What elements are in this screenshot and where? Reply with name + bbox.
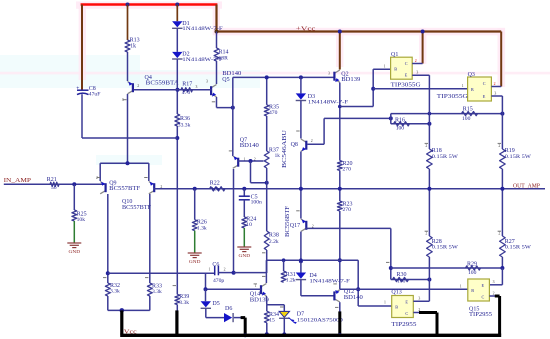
svg-text:GND: GND (189, 259, 201, 264)
svg-text:R17: R17 (182, 82, 192, 88)
svg-text:BD140: BD140 (240, 143, 259, 149)
svg-text:R29: R29 (467, 261, 477, 267)
svg-text:R30: R30 (397, 272, 407, 278)
svg-text:56: 56 (51, 185, 57, 191)
svg-text:BD139: BD139 (341, 77, 360, 83)
svg-text:E: E (405, 72, 408, 77)
svg-text:33.3k: 33.3k (178, 122, 191, 128)
svg-text:BC559BTA: BC559BTA (146, 81, 180, 87)
svg-text:B: B (471, 288, 474, 293)
svg-text:IN_AMP: IN_AMP (4, 177, 32, 184)
svg-text:TIP2955: TIP2955 (391, 322, 416, 328)
svg-text:270: 270 (343, 207, 352, 213)
svg-text:GND: GND (239, 253, 251, 258)
svg-text:3: 3 (416, 71, 418, 75)
svg-text:B: B (394, 67, 397, 72)
svg-text:3.3k: 3.3k (110, 289, 120, 295)
svg-text:2: 2 (425, 144, 427, 148)
svg-text:BC556BTF: BC556BTF (285, 205, 291, 237)
svg-text:470: 470 (269, 110, 278, 116)
svg-text:2: 2 (494, 82, 496, 86)
svg-text:2: 2 (498, 144, 500, 148)
svg-text:470: 470 (182, 90, 191, 96)
svg-text:100: 100 (397, 279, 406, 285)
svg-text:1: 1 (209, 267, 211, 271)
svg-text:R36: R36 (180, 116, 190, 122)
svg-text:2: 2 (498, 232, 500, 236)
svg-text:1N4148W-7-F: 1N4148W-7-F (308, 100, 349, 106)
svg-text:2: 2 (224, 267, 226, 271)
svg-text:Q1: Q1 (391, 52, 398, 58)
svg-text:3.3k: 3.3k (179, 300, 189, 306)
svg-text:Q3: Q3 (468, 72, 475, 78)
svg-text:3: 3 (418, 297, 420, 301)
svg-text:TIP3055G: TIP3055G (391, 83, 422, 89)
svg-text:R15: R15 (463, 106, 473, 112)
svg-text:2: 2 (311, 139, 313, 143)
svg-text:Q8: Q8 (291, 142, 298, 148)
svg-text:3: 3 (494, 91, 496, 95)
svg-text:3: 3 (328, 71, 330, 75)
svg-text:0.15R 5W: 0.15R 5W (432, 154, 459, 160)
svg-text:100n: 100n (251, 200, 262, 206)
svg-text:2: 2 (415, 59, 417, 63)
svg-text:C: C (483, 81, 486, 86)
svg-text:D5: D5 (212, 301, 219, 307)
svg-text:BC557BTF: BC557BTF (122, 205, 152, 211)
svg-text:0.15R 5W: 0.15R 5W (505, 244, 532, 250)
svg-text:10k: 10k (211, 186, 220, 192)
svg-text:1: 1 (462, 84, 464, 88)
svg-text:15: 15 (269, 317, 275, 323)
svg-text:Q5: Q5 (222, 77, 229, 83)
svg-text:B: B (395, 305, 398, 310)
svg-text:100: 100 (396, 125, 405, 131)
svg-text:R21: R21 (47, 177, 57, 183)
svg-text:D6: D6 (225, 306, 232, 312)
svg-text:E: E (482, 283, 485, 288)
svg-text:100: 100 (468, 270, 477, 276)
svg-text:150120AS75000: 150120AS75000 (297, 317, 343, 323)
svg-text:BC546ABU: BC546ABU (282, 129, 288, 168)
svg-text:470p: 470p (213, 278, 224, 284)
svg-text:1k: 1k (130, 43, 136, 49)
svg-text:10: 10 (246, 222, 252, 228)
svg-text:TIP3055G: TIP3055G (437, 94, 469, 100)
svg-text:BC557BTF: BC557BTF (109, 186, 141, 192)
svg-text:0.15R 5W: 0.15R 5W (505, 154, 532, 160)
svg-text:68R: 68R (219, 55, 229, 61)
svg-text:E: E (405, 299, 408, 304)
svg-text:C: C (482, 294, 485, 299)
svg-text:1.3k: 1.3k (197, 225, 207, 231)
svg-text:GND: GND (69, 249, 81, 254)
svg-text:1: 1 (384, 300, 386, 304)
svg-text:E: E (483, 94, 486, 99)
svg-text:R16: R16 (395, 117, 405, 123)
svg-text:R38: R38 (269, 233, 279, 239)
svg-text:270: 270 (343, 167, 352, 173)
svg-text:B: B (471, 87, 474, 92)
svg-text:TIP2955: TIP2955 (469, 312, 492, 318)
svg-text:1k: 1k (275, 153, 281, 159)
svg-text:3: 3 (493, 280, 495, 284)
svg-text:1N4148W-7-F: 1N4148W-7-F (182, 26, 223, 32)
svg-text:1.2k: 1.2k (286, 278, 296, 284)
svg-text:1: 1 (384, 65, 386, 69)
svg-text:1N4148W-7-F: 1N4148W-7-F (309, 278, 350, 284)
svg-text:C: C (405, 61, 408, 66)
svg-text:+Vcc: +Vcc (296, 25, 316, 32)
svg-text:C: C (405, 311, 408, 316)
svg-text:2.2k: 2.2k (269, 239, 279, 245)
svg-text:2: 2 (137, 84, 139, 88)
svg-text:BD140: BD140 (344, 295, 363, 301)
svg-text:OUT_AMP: OUT_AMP (513, 183, 540, 190)
svg-text:Q17: Q17 (290, 223, 300, 229)
svg-text:2: 2 (493, 292, 495, 296)
svg-text:1: 1 (460, 284, 462, 288)
svg-text:Q13: Q13 (391, 289, 401, 295)
svg-text:3.3k: 3.3k (152, 289, 162, 295)
svg-text:0.15R 5W: 0.15R 5W (432, 244, 459, 250)
svg-text:2: 2 (425, 232, 427, 236)
svg-text:3: 3 (196, 85, 198, 89)
svg-text:1: 1 (255, 284, 257, 288)
svg-text:100: 100 (462, 116, 471, 122)
svg-text:10k: 10k (77, 217, 86, 223)
svg-text:47uF: 47uF (89, 91, 101, 97)
svg-text:3: 3 (206, 80, 208, 84)
